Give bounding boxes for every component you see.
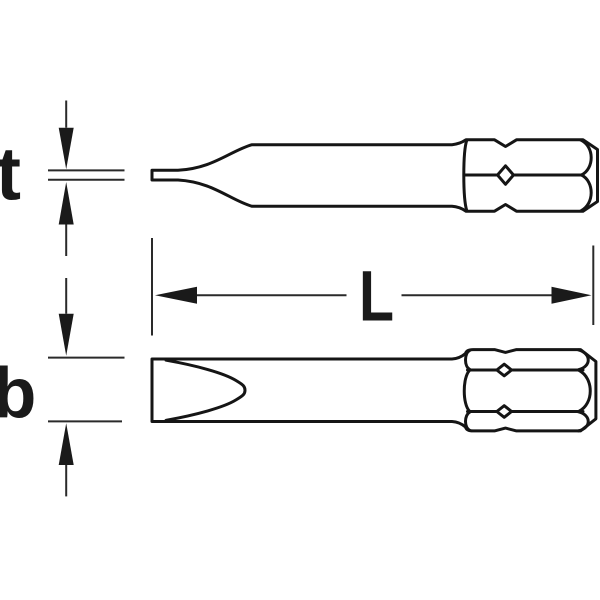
bit face view: hex edge line lower bbox=[468, 410, 584, 413]
b extension line top bbox=[48, 357, 125, 359]
svg-text:L: L bbox=[359, 257, 394, 336]
bit side view: groove diamond bbox=[498, 166, 514, 185]
L arrowhead left bbox=[155, 287, 197, 304]
bit face view: left facet arc middle bbox=[464, 370, 469, 411]
t extension line bottom bbox=[48, 179, 125, 181]
b extension line bottom bbox=[48, 420, 122, 422]
bit side view: outline bbox=[152, 140, 598, 211]
bit face view: right facet arc upper bbox=[579, 350, 589, 370]
bit side view: facet end arc upper bbox=[581, 140, 591, 175]
bit side view: facet end arc lower bbox=[581, 175, 591, 211]
bit face view: tip grind curve bbox=[166, 360, 245, 420]
b arrowhead down bbox=[59, 314, 74, 356]
L dimension line bbox=[197, 294, 552, 296]
t arrowhead down bbox=[59, 128, 74, 170]
bit face view: groove diamond upper bbox=[497, 364, 512, 376]
bit face view: left facet arc lower bbox=[466, 412, 471, 431]
b arrow shaft lower bbox=[65, 465, 67, 496]
bit side view: hex shoulder arc bbox=[464, 140, 467, 211]
bit face view: outline bbox=[152, 350, 596, 431]
L arrowhead right bbox=[552, 287, 592, 304]
t extension line top bbox=[48, 169, 125, 171]
t arrow shaft lower / b arrow shaft upper (broken line) bbox=[65, 225, 67, 314]
bit face view: right facet arc middle bbox=[579, 370, 590, 411]
t arrow shaft upper bbox=[65, 101, 67, 128]
b arrowhead up bbox=[59, 423, 74, 465]
bit face view: right facet arc lower bbox=[579, 412, 589, 431]
svg-text:b: b bbox=[0, 354, 36, 433]
L extension line left bbox=[151, 238, 153, 336]
svg-text:t: t bbox=[0, 132, 21, 216]
bit side view: hex mid edge line bbox=[464, 174, 582, 177]
bit face view: hex edge line upper bbox=[468, 369, 584, 372]
L extension line right bbox=[592, 246, 594, 326]
t arrowhead up bbox=[59, 182, 74, 225]
bit face view: left facet arc upper bbox=[466, 350, 471, 369]
bit face view: groove diamond lower bbox=[497, 406, 512, 418]
